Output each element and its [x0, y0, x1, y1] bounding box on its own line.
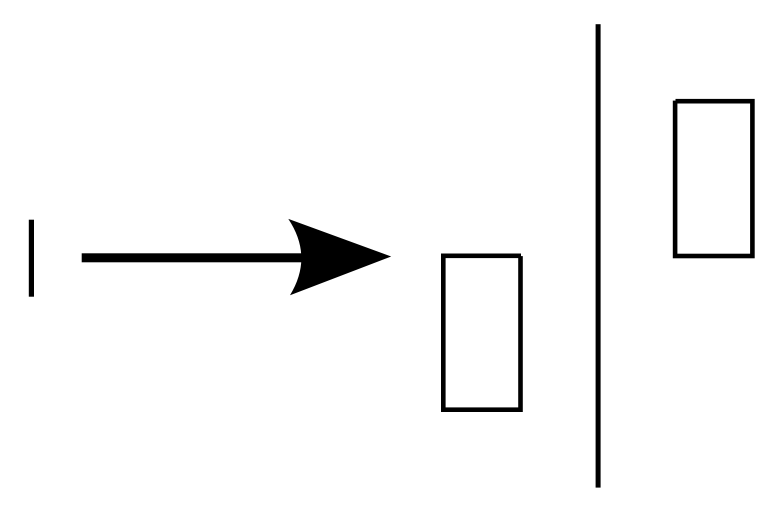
short vertical line (left tick) [29, 220, 34, 297]
rectangle box 1 (lower middle) [443, 256, 520, 410]
rectangle box 2 (upper right) [675, 101, 752, 256]
vertical divider line [596, 24, 601, 487]
white gap notch at top-left corner of box 2 [672, 98, 675, 100]
white gap notch at top-right corner of box 1 [521, 252, 524, 256]
wire (arrow shaft) [82, 253, 322, 262]
arrowhead [288, 219, 391, 295]
